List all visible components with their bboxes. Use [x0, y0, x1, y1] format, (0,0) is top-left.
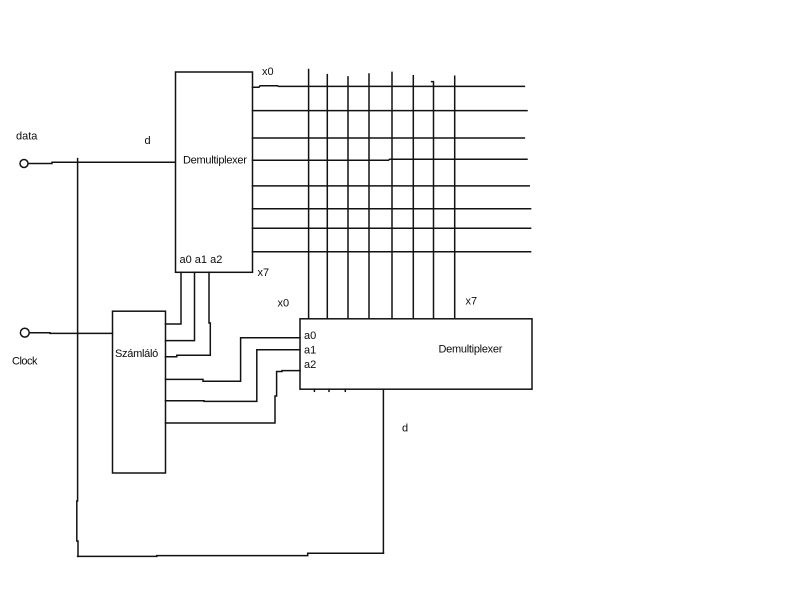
wire output x7 of U1 (row 7) — [253, 251, 531, 253]
wire counter a0 to U2 address a0 — [166, 338, 301, 381]
wire data: pad to demultiplexer U1 d input — [28, 162, 175, 163]
svg-text:Clock: Clock — [12, 356, 38, 368]
wire column x7 of U2 — [454, 76, 456, 319]
wire column x1 of U2 — [326, 75, 328, 319]
wire column x0 of U2 — [308, 70, 310, 319]
wire output x2 of U1 (row 2) — [253, 137, 525, 139]
svg-text:a1: a1 — [304, 345, 316, 357]
svg-text:data: data — [16, 131, 38, 143]
wire output x6 of U1 (row 6) — [253, 227, 531, 229]
wire feedback d: bottom run — [78, 553, 384, 556]
svg-text:Demultiplexer: Demultiplexer — [439, 344, 503, 356]
wire output x1 of U1 (row 1) — [253, 110, 528, 112]
op block: counter Számláló body — [113, 311, 166, 473]
wire feedback d: junction down left side — [77, 162, 78, 556]
wire counter a0 to U1 address a0 — [166, 272, 182, 324]
node junction on data wire (tick) — [77, 159, 79, 163]
wire column x6 of U2 (short, hooked top) — [432, 82, 434, 319]
op block: demultiplexer U1 body — [176, 72, 253, 272]
wire output x0 of U1 (row 0) — [253, 86, 525, 88]
svg-text:a2: a2 — [304, 359, 316, 371]
wire counter a2 to U1 address a2 — [166, 272, 211, 357]
svg-text:x7: x7 — [466, 296, 478, 308]
wire counter a1 to U2 address a1 — [166, 350, 301, 402]
svg-text:Számláló: Számláló — [115, 348, 158, 360]
wire Clock: pad to counter clk input — [29, 332, 112, 335]
wire output x5 of U1 (row 5) — [253, 208, 531, 210]
svg-text:Demultiplexer: Demultiplexer — [183, 155, 247, 167]
wire column x3 of U2 — [368, 74, 370, 319]
terminal Clock (input pad) — [20, 328, 29, 337]
wire output x3 of U1 (row 3) — [253, 159, 528, 160]
svg-text:d: d — [402, 423, 408, 435]
wire column x4 of U2 — [391, 72, 393, 318]
svg-text:a0 a1 a2: a0 a1 a2 — [180, 254, 223, 266]
wire counter a2 to U2 address a2 — [166, 371, 301, 423]
wire feedback d: riser to demultiplexer U2 d input — [382, 389, 384, 553]
svg-text:x0: x0 — [262, 66, 274, 78]
svg-text:x0: x0 — [278, 298, 290, 310]
svg-text:x7: x7 — [258, 267, 270, 279]
wire column x2 of U2 — [347, 77, 349, 319]
wire column x5 of U2 — [412, 76, 414, 319]
svg-text:a0: a0 — [304, 330, 316, 342]
op block: demultiplexer U2 body — [300, 319, 532, 389]
terminal data (input pad) — [20, 160, 28, 168]
wire output x4 of U1 (row 4) — [253, 185, 530, 187]
pin stub ticks on U2 bottom edge — [313, 389, 315, 391]
wire counter a1 to U1 address a1 — [166, 272, 195, 340]
svg-text:d: d — [145, 135, 151, 147]
